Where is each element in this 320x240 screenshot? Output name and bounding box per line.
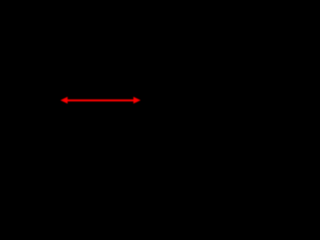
black background canvas [0, 0, 154, 122]
arrow shaft [64, 99, 137, 101]
double-headed red arrow (measure indicator) [60, 97, 140, 104]
left arrowhead [60, 97, 67, 104]
right arrowhead [133, 97, 140, 104]
